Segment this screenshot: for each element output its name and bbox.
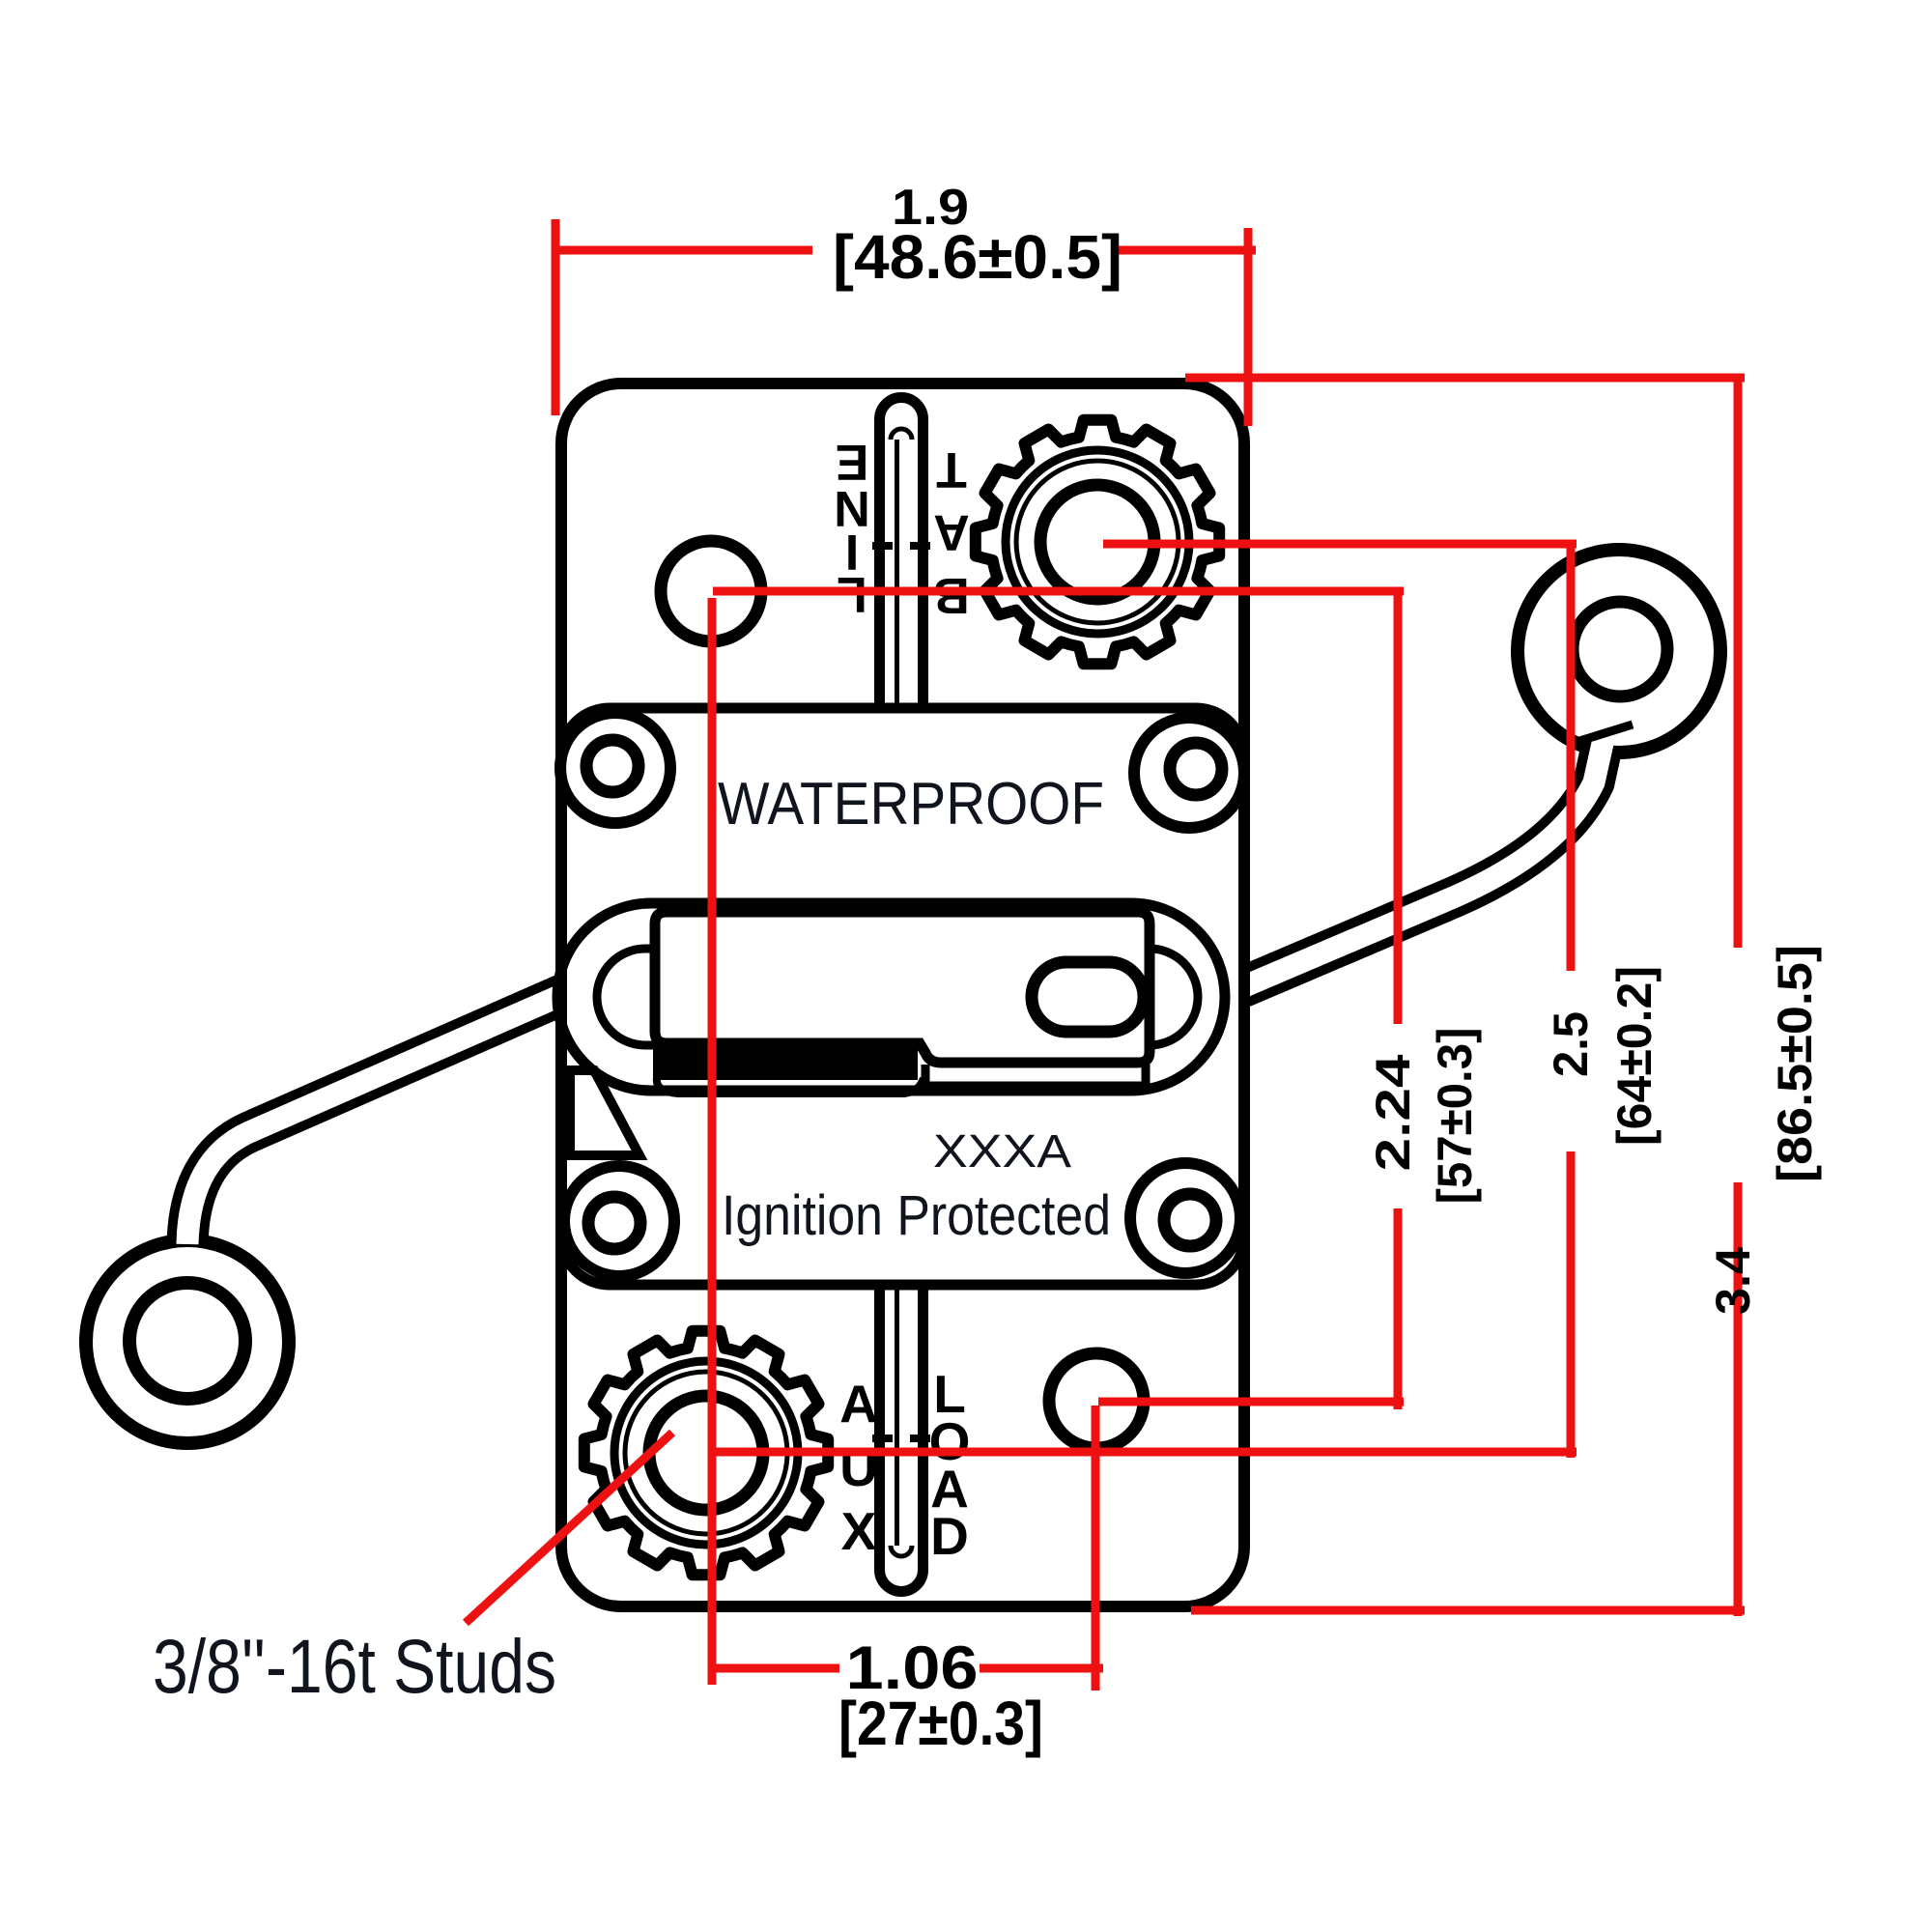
lever step tray (925, 1065, 1146, 1086)
dim 1.9 extension lines (552, 219, 1256, 426)
stud BAT gear nut (976, 420, 1219, 664)
lever slot oval (1032, 962, 1144, 1032)
screw pad top-right (1140, 724, 1238, 822)
svg-text:XXXA: XXXA (933, 1126, 1071, 1178)
ring terminal right (1518, 550, 1720, 753)
dim 2.24 lines (713, 591, 1404, 1409)
label AUX (839, 1374, 878, 1561)
screw pad bottom-right (1136, 1169, 1235, 1267)
screw hole bottom-left (588, 1197, 640, 1249)
stud AUX gear nut (584, 1331, 828, 1575)
lever handle (655, 912, 1150, 1063)
lever bezel inner (597, 949, 1198, 1045)
svg-text:D: D (930, 1506, 969, 1566)
dim 1.06 lines (712, 598, 1103, 1690)
svg-text:3/8''-16t Studs: 3/8''-16t Studs (153, 1623, 556, 1709)
dim 3.4 lines (1185, 378, 1745, 1616)
label LOAD (929, 1364, 971, 1566)
slot top inner line (895, 440, 899, 708)
screw pad bottom-left (570, 1172, 668, 1270)
svg-text:[86.5±0.5]: [86.5±0.5] (1768, 945, 1822, 1182)
wire left core over ring mouth (187, 993, 566, 1244)
svg-text:A: A (933, 504, 970, 560)
svg-text:2.5: 2.5 (1544, 1011, 1598, 1077)
slot bottom outer (880, 1285, 923, 1592)
slot bottom inner line (895, 1285, 899, 1546)
svg-text:[48.6±0.5]: [48.6±0.5] (833, 222, 1122, 292)
mounting panel plate (561, 708, 1244, 1285)
svg-text:T: T (936, 441, 967, 497)
svg-text:A: A (839, 1374, 878, 1434)
wire right lead (1242, 752, 1601, 987)
svg-text:2.24: 2.24 (1366, 1054, 1420, 1171)
lever skirt line (657, 1078, 923, 1094)
leader line studs (466, 1433, 672, 1623)
label BAT (rotated 180) (933, 441, 970, 623)
screw hole top-left (586, 740, 639, 792)
slot bottom nubs (872, 1435, 930, 1442)
slot top outer (880, 398, 923, 709)
svg-text:U: U (839, 1437, 878, 1497)
terminal hole top-left (661, 541, 761, 641)
screw pad top-left (566, 719, 665, 817)
lever bezel outer (557, 903, 1225, 1091)
svg-text:3.4: 3.4 (1706, 1247, 1760, 1315)
label LINE (rotated 180) (834, 434, 870, 622)
svg-text:[57±0.3]: [57±0.3] (1428, 1028, 1482, 1205)
svg-text:[27±0.3]: [27±0.3] (838, 1689, 1043, 1758)
wire right crimp cap (1577, 724, 1633, 742)
wire right core over ring mouth (1242, 730, 1605, 987)
dim 2.5 lines (712, 544, 1577, 1458)
slot top nubs (872, 542, 930, 550)
slot top inner arc (891, 429, 912, 440)
slot bottom inner arc (891, 1546, 912, 1556)
screw hole bottom-right (1164, 1194, 1216, 1246)
svg-text:X: X (841, 1501, 877, 1561)
wire left lead (187, 993, 566, 1244)
svg-text:[64±0.2]: [64±0.2] (1607, 966, 1662, 1146)
screw hole top-right (1170, 743, 1222, 795)
ring terminal left (86, 1240, 289, 1443)
triangle marker (570, 1070, 639, 1155)
breaker body outline (561, 384, 1244, 1606)
svg-text:Ignition Protected: Ignition Protected (722, 1184, 1111, 1247)
svg-text:WATERPROOF: WATERPROOF (718, 771, 1104, 838)
terminal hole bottom-right (1049, 1353, 1144, 1448)
lever shadow bar (653, 1049, 918, 1080)
